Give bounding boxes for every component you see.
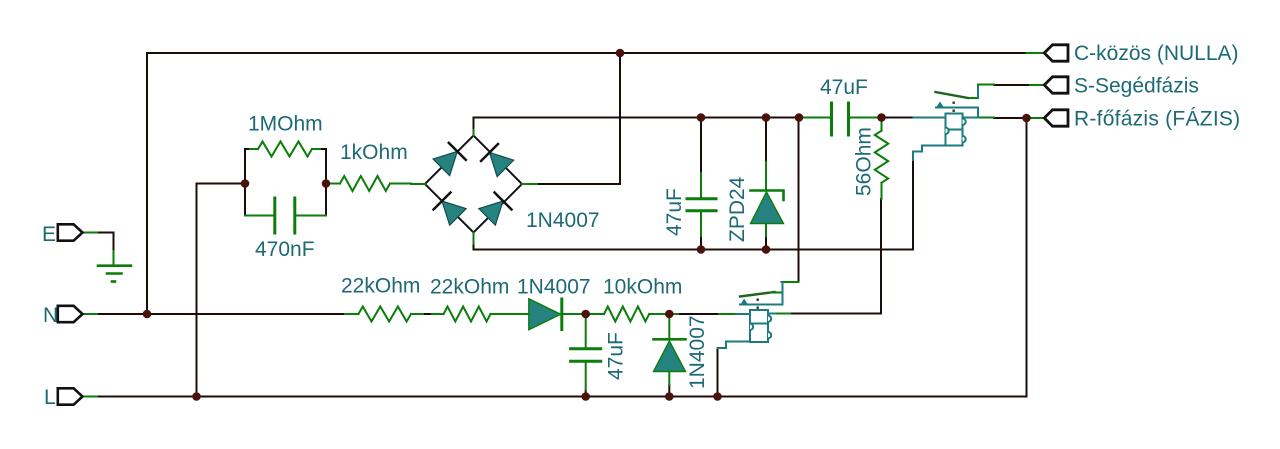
relay K2 coil <box>736 310 775 342</box>
bridge diode lower-left <box>434 193 467 226</box>
svg-text:1MOhm: 1MOhm <box>248 113 323 136</box>
svg-text:1kOhm: 1kOhm <box>340 141 408 164</box>
resistor 10kOhm <box>586 313 604 315</box>
svg-text:C-közös (NULLA): C-közös (NULLA) <box>1074 42 1239 65</box>
wire 56Ohm bottom to relay2 coil right pin <box>790 199 881 314</box>
relay K1 switch blade <box>936 92 969 98</box>
wire 10kOhm to relay coil <box>678 313 719 315</box>
connector C-kozos <box>1044 45 1068 61</box>
relay K2 mechanical link dots <box>757 299 759 301</box>
wire C rail top <box>147 52 1027 54</box>
svg-text:56Ohm: 56Ohm <box>853 127 876 196</box>
connector S-Segedfazis <box>1044 77 1068 93</box>
connector L <box>58 388 83 404</box>
wire vertical from C rail to N rail <box>146 53 148 314</box>
wire bridge top vertex to plus rail <box>474 118 800 131</box>
relay K2 common line <box>740 304 783 306</box>
capacitor 470nF <box>245 215 273 217</box>
wire E connector to ground <box>97 233 114 252</box>
svg-text:47uF: 47uF <box>663 188 686 236</box>
bridge diode upper-left <box>433 143 466 176</box>
relay K1 mechanical link dots <box>953 102 955 104</box>
connector R-fofazis <box>1044 110 1068 126</box>
svg-text:N: N <box>43 304 58 327</box>
relay K1 blade contact step to S line <box>968 97 978 99</box>
bridge stub left vertex <box>411 183 425 185</box>
bridge rectifier 1N4007 diamond <box>425 136 522 233</box>
wire relay2 switch vertical to plus rail <box>798 118 800 283</box>
connector stub E <box>82 232 97 234</box>
junction node dots <box>143 49 1031 401</box>
svg-text:L: L <box>44 386 56 409</box>
wire 470nF branch verticals <box>244 184 246 216</box>
wire L rail <box>97 396 1027 398</box>
wire S line <box>994 84 1030 86</box>
connector E <box>58 224 83 240</box>
wire ZPD24 leads dark parts <box>765 118 767 163</box>
relay K1 coil bottom pin <box>913 146 946 161</box>
svg-text:1N4007: 1N4007 <box>517 276 591 299</box>
svg-text:10kOhm: 10kOhm <box>603 276 682 299</box>
wire vertical from RC node to L rail <box>196 184 198 397</box>
svg-text:S-Segédfázis: S-Segédfázis <box>1074 75 1199 98</box>
connector stub R <box>1027 117 1046 119</box>
relay K1 common line <box>936 108 978 118</box>
capacitor 47uF lower <box>585 314 587 348</box>
relay K2 vertical to plus rail branch <box>782 282 784 305</box>
svg-text:22kOhm: 22kOhm <box>430 276 509 299</box>
relay K2 switch blade <box>740 292 775 297</box>
svg-text:47uF: 47uF <box>605 332 628 380</box>
relay K1 pivot <box>936 102 944 108</box>
diode 1N4007 vertical lower <box>668 314 670 339</box>
wire 1MOhm branch verticals <box>245 149 250 184</box>
capacitor 47uF horizontal top <box>799 117 829 119</box>
wire R-fofazis vertical to L rail <box>1026 118 1028 397</box>
svg-text:E: E <box>42 223 56 246</box>
relay K1 coil <box>914 114 979 146</box>
svg-text:R-főfázis (FÁZIS): R-főfázis (FÁZIS) <box>1074 108 1240 131</box>
resistor 1kOhm <box>326 183 340 185</box>
relay K2 pivot <box>741 299 749 305</box>
zener ZPD24 <box>765 162 767 191</box>
wire RC node to left <box>197 183 246 185</box>
relay K2 coil bottom pin <box>718 342 751 349</box>
wire bridge right vertex to top rail <box>537 53 620 184</box>
resistor 1MOhm <box>250 148 258 150</box>
wire relay2 bottom pin to L rail <box>717 348 719 397</box>
connector stub C <box>1027 52 1046 54</box>
diode 1N4007 horizontal <box>509 313 529 315</box>
resistor 22kOhm second <box>432 313 444 315</box>
svg-text:47uF: 47uF <box>820 76 868 99</box>
capacitor 47uF vertical at plus rail <box>700 173 702 198</box>
wire 1N4007 lower diode dark lead <box>668 385 670 397</box>
resistor 56Ohm <box>881 118 883 131</box>
ground stub green from E wire <box>113 251 115 266</box>
wire 47uF upper leads dark parts <box>700 118 702 174</box>
resistor 22kOhm first <box>345 313 358 315</box>
wire 47uF lower cap dark lead <box>585 390 587 397</box>
ground symbol <box>98 264 131 267</box>
wire plus rail right of 56Ohm to relay coil <box>882 117 914 119</box>
wire between 22kOhm resistors <box>423 313 432 315</box>
connector N <box>58 306 83 322</box>
svg-text:ZPD24: ZPD24 <box>726 176 749 242</box>
svg-text:1N4007: 1N4007 <box>526 209 600 232</box>
connector stub N <box>82 313 97 315</box>
relay K2 blade contact step <box>770 292 783 294</box>
wire minus rail from bridge bottom <box>474 159 914 250</box>
connector stub S <box>1030 84 1045 86</box>
svg-text:470nF: 470nF <box>255 238 315 261</box>
svg-text:22kOhm: 22kOhm <box>341 275 420 298</box>
bridge diode upper-right <box>481 144 514 177</box>
bridge diode lower-right <box>479 193 512 226</box>
wire R line from relay1 <box>994 117 1027 119</box>
connector stub L <box>82 396 97 398</box>
svg-text:1N4007: 1N4007 <box>686 315 709 389</box>
wire N rail <box>97 313 345 315</box>
